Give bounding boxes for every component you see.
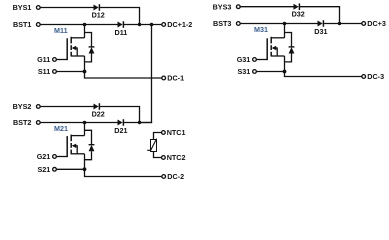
transistor M31 channel segments [270, 37, 272, 57]
terminal G11 [53, 58, 57, 62]
wire BYS1 to D12 anode [41, 7, 95, 9]
svg-text:D31: D31 [314, 27, 327, 36]
terminal DC-2 [162, 175, 166, 179]
svg-text:G21: G21 [37, 152, 51, 161]
wire S31 node jog to DC-3 [285, 72, 362, 77]
svg-text:G31: G31 [237, 55, 251, 64]
wire BST1 to D11 anode [41, 24, 119, 26]
wire G11 to gate [57, 59, 67, 61]
terminal NTC1 [162, 131, 166, 135]
transistor M11 gate bar [66, 38, 68, 60]
transistor M21 drain stub [71, 135, 84, 137]
junction dot D22/D21 outputs [138, 121, 141, 124]
wire corner down to BST2 net [139, 107, 141, 123]
wire corner down to BST3 net [339, 7, 341, 24]
wire NTC1 to thermistor [154, 133, 162, 140]
body diode of M31 [285, 33, 295, 62]
terminal DC-3 [362, 75, 366, 79]
wire S31 to source node [257, 71, 285, 73]
junction dot S31 node [283, 70, 287, 74]
wire G21 to gate [57, 156, 67, 158]
diode D32 [294, 3, 300, 10]
svg-text:S11: S11 [38, 67, 50, 76]
svg-text:D32: D32 [292, 10, 305, 19]
wire S21 node jog to DC-2 [85, 169, 162, 176]
svg-text:D22: D22 [92, 110, 105, 119]
terminal BST3 [236, 22, 240, 26]
svg-text:S31: S31 [238, 67, 251, 76]
terminal S11 [53, 70, 57, 74]
transistor M11 channel segments [70, 37, 72, 57]
wire D12 cathode to corner [100, 7, 140, 9]
junction dot S11 node [83, 70, 87, 74]
junction dot DC+ bus tap [150, 23, 154, 27]
terminal DC+1-2 [162, 23, 166, 27]
terminal BST1 [36, 23, 40, 27]
wire S11 to source node [57, 71, 85, 73]
transistor M21 substrate arrow [72, 144, 78, 154]
thermistor RT strike mark [147, 139, 156, 151]
wire BST3 to D31 anode [241, 23, 319, 25]
junction dot D12/D11 outputs [138, 23, 141, 26]
wire M21 source riser [84, 154, 86, 170]
transistor M21 gate bar [66, 136, 68, 157]
wire M31 drain riser [284, 24, 286, 38]
junction dot D32/D31 outputs [338, 22, 341, 25]
svg-text:D12: D12 [92, 11, 105, 20]
wire M11 drain riser [84, 25, 86, 38]
terminal G31 [253, 58, 257, 62]
terminal DC-1 [162, 76, 166, 80]
svg-text:G11: G11 [37, 55, 50, 64]
junction dot M21 drain tap [83, 121, 87, 125]
svg-text:DC-2: DC-2 [167, 172, 184, 181]
diode D11 [118, 21, 124, 28]
terminal BYS2 [36, 105, 40, 109]
svg-text:DC-3: DC-3 [367, 72, 384, 81]
terminal S21 [53, 167, 57, 171]
svg-text:BYS3: BYS3 [213, 2, 232, 11]
wire M21 drain riser [84, 123, 86, 136]
junction dot M31 drain tap [283, 22, 287, 26]
transistor M11 source stub [71, 55, 84, 57]
svg-text:NTC1: NTC1 [167, 128, 186, 137]
wire D11 cathode to terminal [124, 24, 162, 26]
svg-text:DC+1-2: DC+1-2 [167, 20, 192, 29]
svg-text:M11: M11 [54, 26, 68, 35]
terminal BST2 [36, 121, 40, 125]
svg-text:DC-1: DC-1 [167, 74, 184, 83]
transistor M21 channel segments [70, 135, 72, 155]
terminal NTC2 [162, 156, 166, 160]
wire thermistor to NTC2 [154, 152, 162, 158]
terminal S31 [253, 70, 257, 74]
wire D22 cathode to corner [100, 106, 140, 108]
wire S21 to source node [57, 168, 85, 170]
wire D31 cathode to terminal [324, 23, 362, 25]
svg-text:BYS1: BYS1 [13, 3, 32, 12]
terminal BYS3 [236, 5, 240, 9]
wire D21 cathode to DC+ bus [124, 122, 152, 124]
junction dot M11 drain tap [83, 23, 87, 27]
wire BST2 to D21 anode [41, 122, 119, 124]
svg-text:DC+3: DC+3 [367, 19, 386, 28]
wire BYS2 to D22 anode [41, 106, 95, 108]
wire D32 cathode to corner [300, 6, 340, 8]
transistor M11 drain stub [71, 37, 84, 39]
transistor M11 substrate arrow [72, 46, 78, 56]
diode D22 [94, 103, 100, 110]
junction dot S21 node [83, 167, 87, 171]
svg-text:S21: S21 [38, 165, 51, 174]
wire corner down to BST1 net [139, 8, 141, 25]
body diode of M21 [85, 130, 95, 159]
wire S11 node jog to DC-1 [85, 72, 162, 79]
transistor M31 substrate arrow [272, 46, 278, 56]
svg-text:D21: D21 [114, 126, 127, 135]
diode D31 [318, 20, 324, 27]
diode D12 [94, 4, 100, 11]
svg-text:D11: D11 [115, 28, 128, 37]
wire BYS3 to D32 anode [241, 6, 295, 8]
svg-text:BST1: BST1 [13, 20, 31, 29]
terminal BYS1 [36, 6, 40, 10]
terminal G21 [53, 155, 57, 159]
diode D21 [118, 119, 124, 126]
wire M31 source riser [284, 56, 286, 72]
wire DC+ bus cell1 to cell2 [140, 25, 152, 123]
terminal DC+3 [362, 22, 366, 26]
wire M11 source riser [84, 56, 86, 72]
svg-text:NTC2: NTC2 [167, 153, 186, 162]
transistor M31 source stub [271, 55, 284, 57]
svg-text:BYS2: BYS2 [13, 102, 32, 111]
svg-text:M21: M21 [54, 124, 68, 133]
svg-text:BST2: BST2 [13, 118, 31, 127]
transistor M31 gate bar [266, 38, 268, 60]
thermistor RT body [151, 140, 157, 152]
svg-text:M31: M31 [254, 25, 268, 34]
wire G31 to gate [257, 59, 268, 61]
transistor M21 source stub [71, 153, 84, 155]
transistor M31 drain stub [271, 37, 284, 39]
svg-text:BST3: BST3 [213, 19, 231, 28]
body diode of M11 [85, 33, 95, 62]
